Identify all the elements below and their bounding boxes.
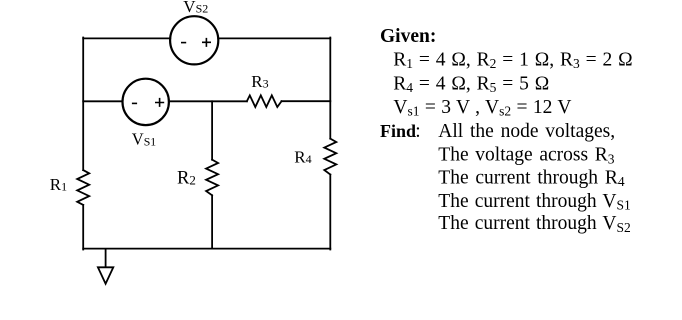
wire middle-left segment xyxy=(83,100,122,102)
resistor R2 xyxy=(206,160,218,196)
svg-text:R4 = 4 Ω, R5 = 5 Ω: R4 = 4 Ω, R5 = 5 Ω xyxy=(393,73,549,95)
label VS1 xyxy=(132,130,156,149)
wire top-right segment xyxy=(218,37,330,39)
ground xyxy=(98,249,113,284)
svg-text:The current through VS2: The current through VS2 xyxy=(438,213,630,235)
resistor R3 xyxy=(247,95,282,107)
wire top-left segment xyxy=(83,37,170,39)
wire middle-right segment xyxy=(282,100,331,102)
svg-text:R4: R4 xyxy=(294,147,311,166)
svg-text:Given:: Given: xyxy=(380,26,436,47)
svg-text:R3: R3 xyxy=(251,72,268,91)
resistor R1 xyxy=(77,170,89,205)
svg-text:The current through R4: The current through R4 xyxy=(438,168,625,190)
svg-text:All the node voltages,: All the node voltages, xyxy=(438,121,615,142)
wire R2 branch upper xyxy=(211,101,213,159)
wire left vertical upper xyxy=(82,38,84,171)
voltage source VS1 xyxy=(123,79,169,125)
svg-text:R2: R2 xyxy=(177,168,196,188)
wire middle-center segment xyxy=(169,100,247,102)
label R2 xyxy=(177,168,196,188)
svg-text:Find: Find xyxy=(380,121,416,141)
label R4 xyxy=(294,147,311,166)
wire bottom segment xyxy=(83,248,330,250)
voltage source VS2 xyxy=(170,16,218,64)
wire right vertical upper xyxy=(329,38,331,139)
wire R2 branch lower xyxy=(211,195,213,248)
svg-text:R1 = 4 Ω, R2 = 1 Ω, R3 = 2 Ω: R1 = 4 Ω, R2 = 1 Ω, R3 = 2 Ω xyxy=(393,49,632,71)
label R3 xyxy=(251,72,268,91)
resistor R4 xyxy=(324,139,336,175)
label VS2 xyxy=(183,0,208,16)
svg-text:VS2: VS2 xyxy=(183,0,208,16)
svg-text:The current through VS1: The current through VS1 xyxy=(438,191,630,213)
svg-text:The voltage across R3: The voltage across R3 xyxy=(438,145,614,167)
svg-text:VS1: VS1 xyxy=(132,130,156,149)
wire left vertical lower xyxy=(82,205,84,250)
wire right vertical lower xyxy=(329,175,331,250)
svg-text:Vs1 = 3 V , Vs2 = 12 V: Vs1 = 3 V , Vs2 = 12 V xyxy=(393,97,571,119)
svg-text::: : xyxy=(415,121,420,142)
given/find text panel xyxy=(380,26,633,235)
label R1 xyxy=(50,175,67,194)
svg-text:R1: R1 xyxy=(50,175,67,194)
